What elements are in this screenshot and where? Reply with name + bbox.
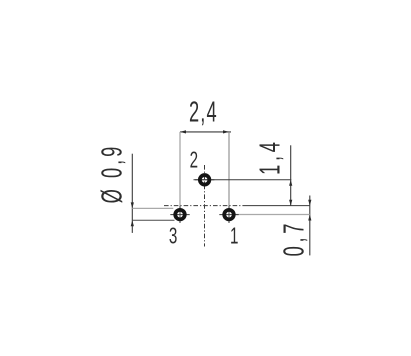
dimension line Ø 0,9 [131,154,133,233]
gray line right of pad 1 [236,214,310,216]
arrow top 1,4 (points up) [289,180,292,186]
dimension text Ø 0,9 (rotated) [96,147,128,204]
pad 3 ring [175,210,185,220]
pad label 3 [169,224,177,250]
svg-text:2,4: 2,4 [189,96,217,128]
svg-text:1: 1 [230,223,238,249]
extension line from pad 2 right [194,179,292,181]
svg-text:Ø 0,9: Ø 0,9 [96,147,128,204]
dimension text 2,4 [189,96,217,128]
vertical centerline through pad 2 [204,165,206,247]
svg-text:0,7: 0,7 [278,224,310,257]
svg-text:3: 3 [169,224,177,250]
dimension text 1,4 (rotated) [254,142,286,175]
arrow top 0,7 (points down) [308,200,311,206]
horizontal extension solid right [243,205,310,207]
svg-text:1,4: 1,4 [254,142,286,175]
arrow left of 2,4 [180,130,186,133]
pad 3 cross vertical [179,206,181,223]
arrow upper Ø 0,9 (points down) [131,202,134,208]
extension line pad3 top edge [132,207,173,209]
pad 2 cross horizontal [195,179,214,181]
arrow bottom 0,7 (points up) [308,215,311,221]
arrow bottom 1,4 (points down) [289,200,292,206]
svg-text:2: 2 [190,148,198,174]
pad 3 cross horizontal [170,214,189,216]
arrow lower Ø 0,9 (points up) [131,220,134,226]
dimension text 0,7 (rotated) [278,224,310,257]
dimension line 1,4 [290,145,292,205]
extension line pad3 bottom edge [132,219,174,221]
arrow right of 2,4 [223,130,229,133]
pad 1 cross horizontal [219,214,238,216]
extension line from pad 1 up [228,132,230,208]
pad 1 cross vertical [228,206,230,223]
horizontal centerline dash-dot [164,205,243,207]
dimension line 0,7 [309,196,311,256]
dimension line 2,4 [180,131,231,133]
pad 1 ring [224,210,234,220]
extension line from pad 3 up [179,132,181,208]
pad 2 ring [200,175,210,185]
pad label 2 [190,148,198,174]
pad label 1 [230,223,238,249]
